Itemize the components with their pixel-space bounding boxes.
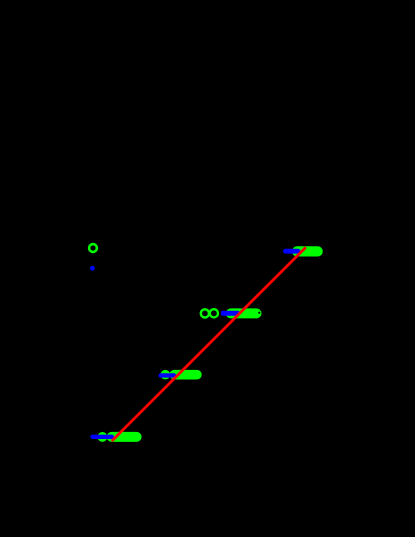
cluster1 green bar [107,432,142,442]
cluster4 green bar [292,246,323,256]
cluster3 bar end hole [258,312,260,314]
cluster3 ring B [210,309,218,317]
cluster4 blue streak [283,249,301,254]
cluster3 green bar [226,308,262,318]
cluster1 green left blob [97,432,107,442]
red fit line [113,248,305,440]
cluster3 ring A [201,309,209,317]
cluster2 blue streak [158,373,176,377]
cluster2 green bar [169,370,201,380]
cluster3 blue streak [221,311,240,316]
legend green ring marker [89,244,97,252]
cluster1 blue streak [90,435,114,439]
legend blue dot marker [90,266,95,271]
cluster2 green left blob [161,370,171,380]
